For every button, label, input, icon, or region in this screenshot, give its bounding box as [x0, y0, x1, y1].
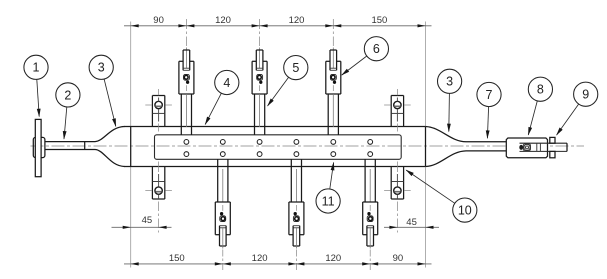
svg-text:11: 11 [322, 194, 335, 208]
svg-text:7: 7 [486, 88, 493, 102]
svg-text:6: 6 [373, 42, 380, 56]
svg-text:45: 45 [406, 217, 417, 228]
svg-text:120: 120 [325, 253, 341, 264]
svg-text:2: 2 [64, 88, 71, 102]
svg-text:3: 3 [446, 75, 453, 89]
svg-text:150: 150 [169, 253, 185, 264]
svg-text:120: 120 [289, 15, 305, 26]
svg-text:1: 1 [33, 61, 40, 75]
svg-text:120: 120 [215, 15, 231, 26]
svg-text:150: 150 [371, 15, 387, 26]
svg-text:3: 3 [98, 61, 105, 75]
svg-text:10: 10 [458, 204, 472, 218]
svg-text:90: 90 [153, 15, 164, 26]
svg-text:45: 45 [142, 215, 153, 226]
svg-text:5: 5 [292, 61, 299, 75]
svg-text:8: 8 [537, 83, 544, 97]
svg-text:120: 120 [252, 253, 268, 264]
svg-text:4: 4 [223, 76, 230, 90]
svg-text:9: 9 [582, 88, 589, 102]
svg-text:90: 90 [393, 253, 404, 264]
